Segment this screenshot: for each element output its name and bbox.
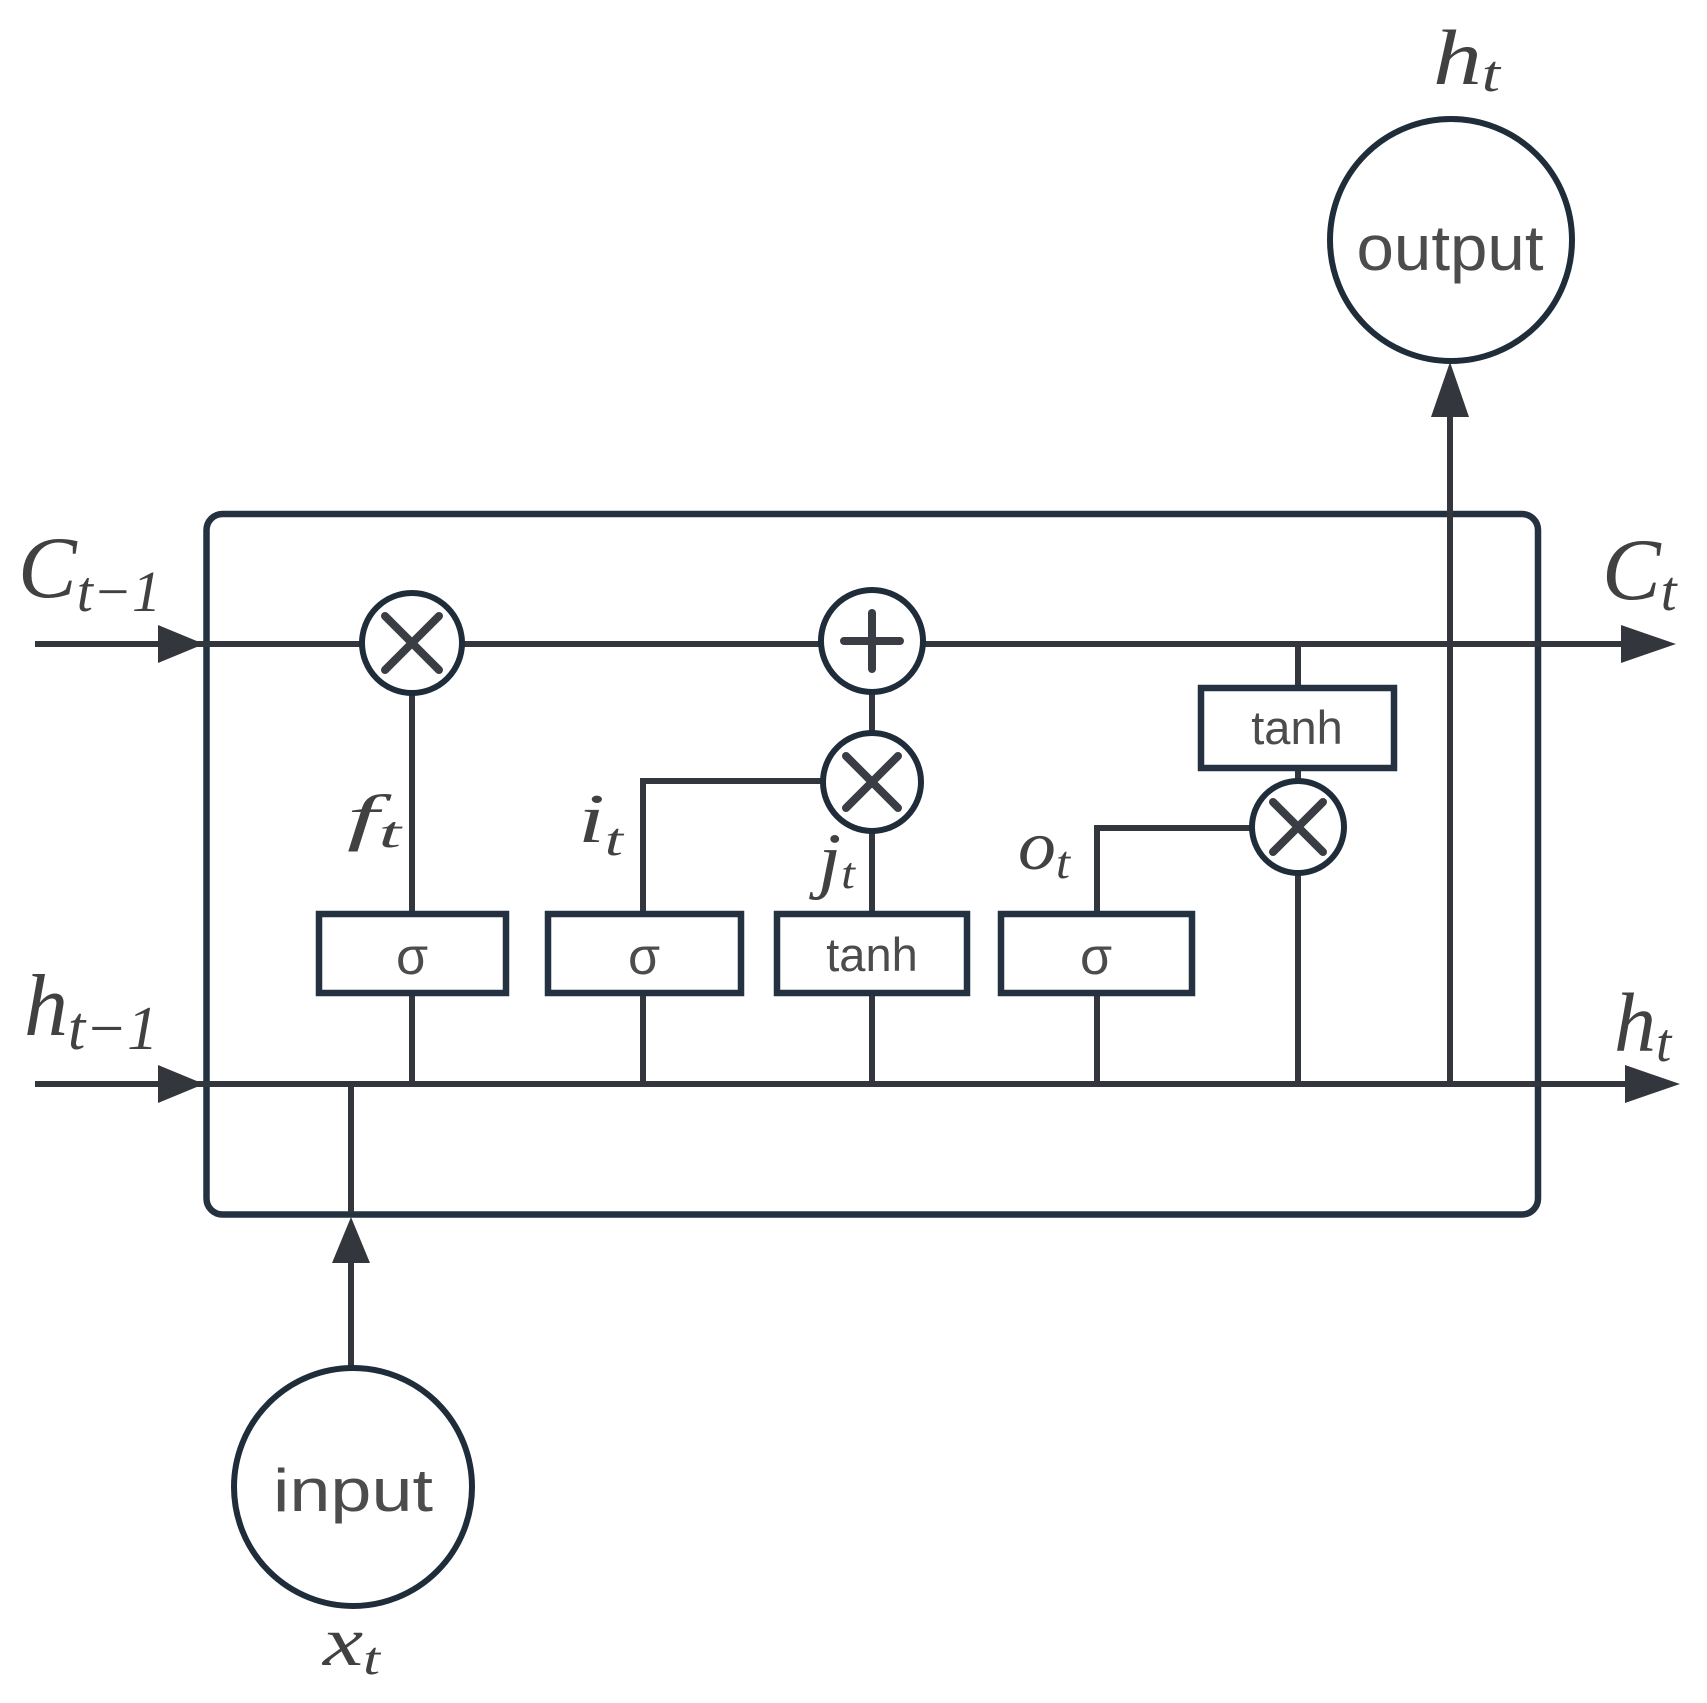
svg-text:σ: σ [628,928,660,986]
LSTM cell body box [207,514,1539,1215]
wire: right multiplier down to h line [1295,872,1301,1084]
wire: plus to multiplier vertical x=872 [869,690,875,735]
svg-text:input: input [273,1457,433,1524]
node label h_{t-1} [24,958,158,1063]
wire: input vertical inside box x=351 [348,1084,354,1213]
node label x_t [322,1604,382,1685]
arrowhead h_t output [1625,1065,1680,1103]
svg-text:tanh: tanh [826,928,917,981]
svg-text:tanh: tanh [1251,701,1342,754]
wire: input node to arrowhead [348,1262,354,1368]
wire: output vertical x=1450 from h line up to output node [1447,412,1453,1084]
tanh label (upper box) [1251,701,1342,754]
svg-text:output: output [1357,212,1544,284]
multiplier node (output) [1252,781,1344,873]
wire: hidden-state line h (horizontal, y=1084) [35,1081,1628,1087]
adder node [821,590,923,692]
node label C_t [1602,522,1678,623]
node label h_t (right) [1614,977,1673,1073]
upper tanh box [1201,688,1394,768]
sigma label (forget box) [396,928,428,986]
gate box sigma (output) [1001,914,1192,993]
wire: box1 bottom to h line [409,991,415,1084]
tanh label (candidate box) [826,928,917,981]
arrowhead into box on h line [158,1065,204,1103]
svg-text:σ: σ [396,928,428,986]
wire: multiplier to tanh box x=872 [869,829,875,916]
sigma label (input box) [628,928,660,986]
wire: forget-gate vertical x=412 [409,691,415,916]
arrowhead into box bottom from input [332,1217,370,1263]
wire: output-gate path x=1097 up and over to right multiplier [1097,828,1253,916]
multiplier node (input) [823,733,921,831]
wire: box4 bottom to h line [1094,991,1100,1084]
multiplier node (forget) [362,593,462,693]
signal label o_t [1018,808,1071,889]
input node circle [234,1368,472,1606]
gate box tanh (candidate) [777,914,967,993]
wire: C line down to upper tanh box x=1298 [1295,644,1301,690]
arrowhead C_t output [1621,625,1676,663]
node label h_t (top) [1433,14,1502,103]
svg-text:σ: σ [1080,928,1112,986]
wire: box2 bottom to h line [640,991,646,1084]
signal label f_t [347,784,404,857]
wire: cell-state line C (horizontal, y=644) [35,641,1624,647]
sigma label (output box) [1080,928,1112,986]
node label C_{t-1} [18,520,161,624]
arrowhead into box on C line [158,625,204,663]
wire: upper tanh box to right multiplier [1295,766,1301,782]
wire: box3 bottom to h line [869,991,875,1084]
gate box sigma (forget) [319,914,506,993]
wire: input-gate path x=643 up and over to multiplier [643,781,824,916]
gate box sigma (input) [548,914,741,993]
arrowhead into output node [1431,362,1469,417]
signal label i_t [578,781,624,866]
output node circle [1330,119,1572,361]
signal label j_t [809,819,857,901]
